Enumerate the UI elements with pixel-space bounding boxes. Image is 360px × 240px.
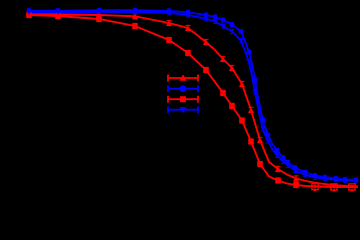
blue series D error bars <box>27 10 358 183</box>
blue curve U line <box>29 10 358 180</box>
blue curve D markers (triangles down) <box>27 10 359 184</box>
red series A error bars <box>27 12 354 191</box>
legend entry 4: blue triangle-down with error-bar line <box>168 106 198 113</box>
legend entry 2: blue circle with error-bar line <box>168 85 198 92</box>
legend entry 1: red triangle-up with error-bar line <box>168 74 198 81</box>
blue curve D line <box>29 12 358 181</box>
blue curve U markers (circles) <box>27 8 359 183</box>
red curve A line <box>29 15 358 187</box>
red curve A markers (squares, open at tail) <box>26 12 355 190</box>
red series B error bars <box>27 11 299 181</box>
blue series U error bars <box>27 8 358 182</box>
legend entry 3: red square with error-bar line <box>168 96 198 103</box>
red curve B line <box>29 14 358 187</box>
red curve B markers (triangles up) <box>26 11 299 181</box>
